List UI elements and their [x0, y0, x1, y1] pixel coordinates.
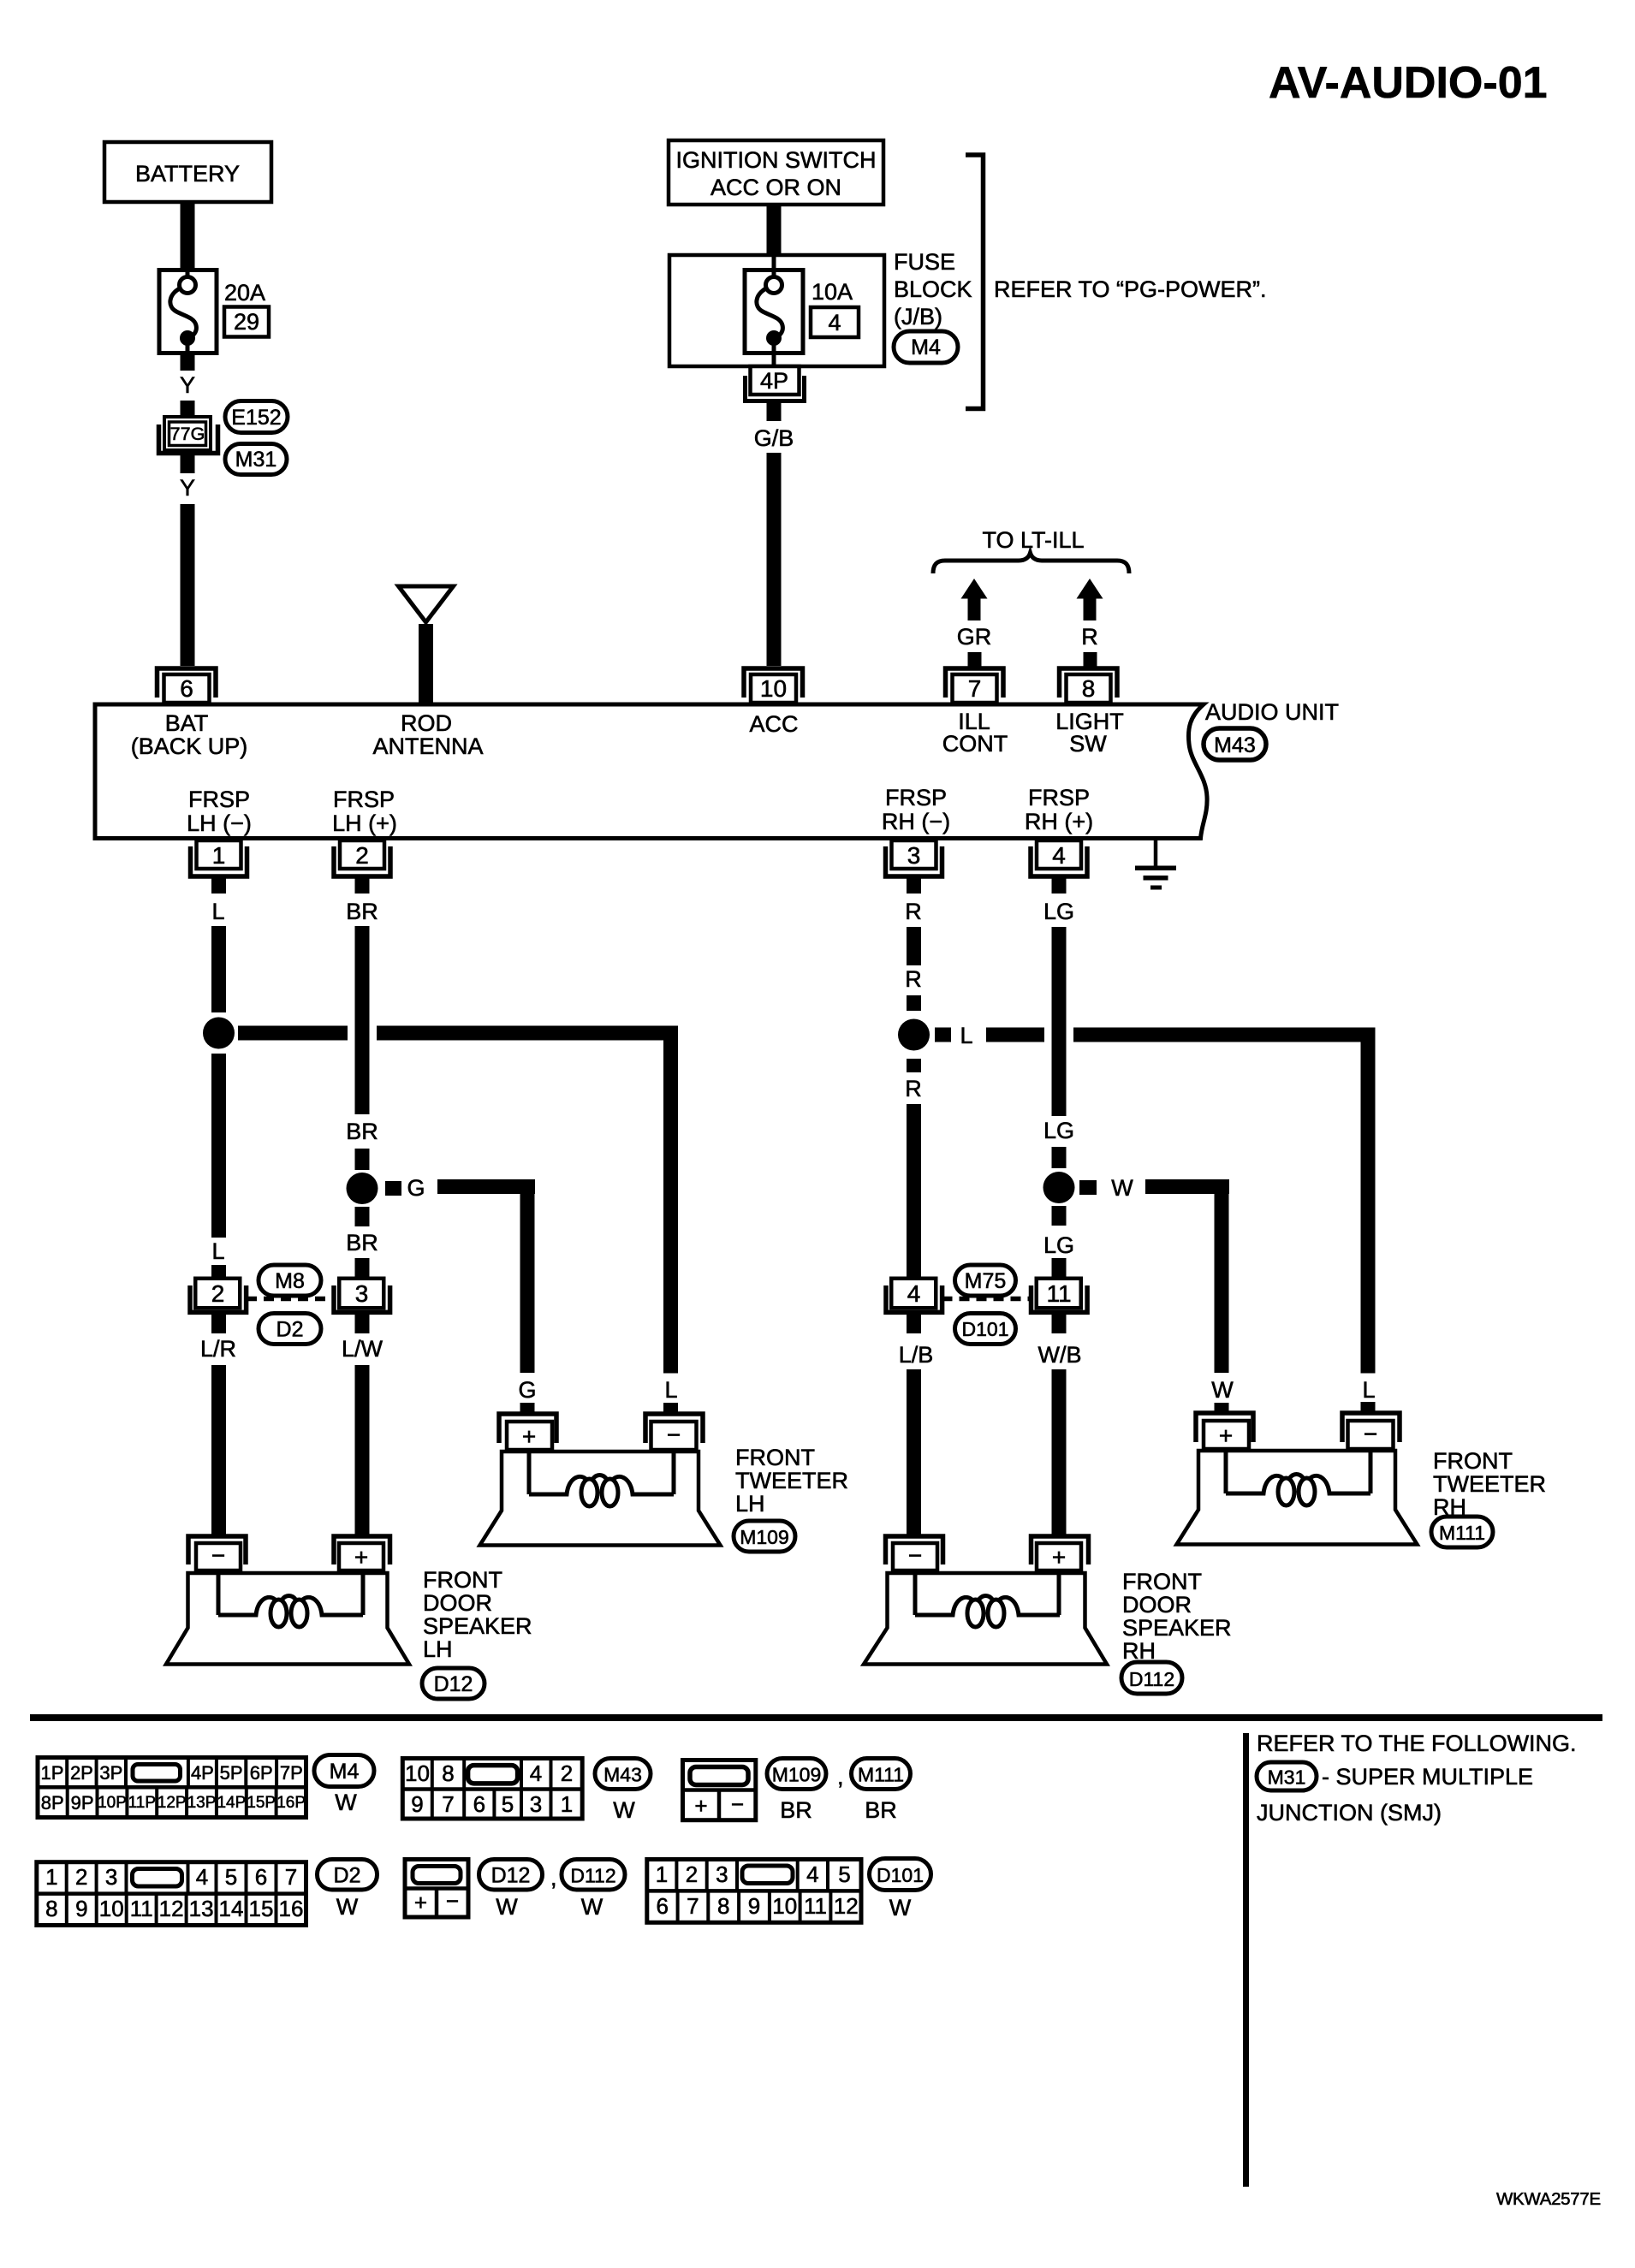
connector oval M109 — [734, 1521, 795, 1552]
svg-text:1: 1 — [45, 1864, 57, 1890]
svg-text:G: G — [518, 1377, 536, 1403]
svg-text:M111: M111 — [1439, 1522, 1485, 1544]
svg-text:REFER TO THE FOLLOWING.: REFER TO THE FOLLOWING. — [1257, 1731, 1577, 1756]
connector oval M4 (legend) — [314, 1755, 374, 1787]
wire L stub to terminal — [1361, 1402, 1376, 1412]
svg-text:FRSP: FRSP — [1028, 785, 1090, 810]
connector oval D12 (legend) — [479, 1860, 543, 1891]
door speaker RH body — [864, 1573, 1107, 1665]
svg-text:FRONT: FRONT — [423, 1567, 502, 1593]
svg-text:BLOCK: BLOCK — [894, 276, 972, 302]
svg-text:M31: M31 — [1268, 1766, 1306, 1789]
door speaker LH coil — [218, 1573, 363, 1615]
svg-text:SPEAKER: SPEAKER — [1122, 1615, 1232, 1641]
branch dash L — [935, 1028, 951, 1042]
svg-text:LG: LG — [1043, 1232, 1074, 1258]
svg-text:9: 9 — [748, 1893, 760, 1919]
svg-text:IGNITION SWITCH: IGNITION SWITCH — [676, 147, 877, 173]
svg-text:9: 9 — [411, 1791, 423, 1817]
wire L lower — [211, 1054, 226, 1238]
svg-text:4: 4 — [530, 1760, 542, 1786]
svg-text:5P: 5P — [220, 1762, 243, 1784]
svg-text:L/W: L/W — [342, 1336, 383, 1362]
wire G stub to terminal — [520, 1403, 535, 1413]
connector grid D101 — [647, 1860, 861, 1923]
svg-text:6: 6 — [180, 675, 193, 702]
svg-text:M43: M43 — [1214, 733, 1256, 757]
svg-text:L: L — [1362, 1377, 1375, 1403]
svg-text:10A: 10A — [812, 279, 853, 305]
svg-text:10: 10 — [772, 1893, 797, 1919]
svg-text:BAT: BAT — [165, 710, 209, 736]
connector oval D112 (legend) — [562, 1860, 625, 1891]
svg-text:G: G — [407, 1175, 425, 1201]
branch wire L to tweeter LH minus — [238, 1026, 348, 1041]
svg-text:5: 5 — [838, 1861, 850, 1887]
svg-text:9P: 9P — [71, 1792, 94, 1814]
wire Y to pin 6 — [181, 504, 195, 666]
bracket for fuse block note — [966, 155, 984, 409]
svg-text:20A: 20A — [224, 280, 265, 306]
rod antenna symbol — [399, 586, 454, 622]
svg-text:12P: 12P — [158, 1794, 187, 1812]
svg-text:SW: SW — [1069, 731, 1107, 757]
svg-text:15: 15 — [249, 1896, 274, 1921]
connector oval M111 (legend) — [852, 1759, 911, 1790]
connector 11 (M75/D101) — [1032, 1285, 1088, 1312]
wire L/B to speaker — [907, 1369, 921, 1535]
svg-text:10: 10 — [99, 1896, 124, 1921]
svg-text:1P: 1P — [41, 1762, 64, 1784]
svg-text:LH (+): LH (+) — [332, 810, 397, 836]
connector drawing M109/M111 — [683, 1760, 756, 1820]
wire BR upper — [355, 926, 370, 1114]
svg-text:DOOR: DOOR — [1122, 1592, 1192, 1618]
svg-text:M109: M109 — [740, 1526, 789, 1548]
arrow GR to LT-ILL — [961, 579, 988, 599]
dash link 4-11 — [942, 1297, 1031, 1302]
pin 8 connector — [1060, 668, 1118, 698]
svg-text:L/B: L/B — [899, 1342, 934, 1368]
svg-text:RH (−): RH (−) — [882, 809, 950, 834]
wire GR to pin 7 — [968, 652, 982, 668]
wire LG block — [1052, 1147, 1067, 1168]
svg-text:W: W — [581, 1894, 603, 1920]
connector oval D101 — [955, 1314, 1016, 1345]
svg-text:7: 7 — [442, 1791, 454, 1817]
svg-text:G/B: G/B — [754, 425, 794, 451]
svg-text:11: 11 — [130, 1896, 153, 1921]
svg-text:FRONT: FRONT — [1122, 1569, 1202, 1594]
door speaker LH plus terminal — [334, 1536, 390, 1564]
connector oval M4 — [894, 331, 958, 363]
svg-text:29: 29 — [234, 309, 259, 335]
pin 6 connector — [158, 668, 217, 698]
svg-text:8: 8 — [45, 1896, 57, 1921]
connector oval D2 (legend) — [318, 1860, 378, 1891]
svg-text:D2: D2 — [276, 1318, 304, 1342]
svg-text:+: + — [694, 1793, 707, 1819]
wire pin4 stub — [1052, 878, 1067, 894]
svg-text:D112: D112 — [1129, 1668, 1174, 1690]
svg-text:2P: 2P — [70, 1762, 93, 1784]
svg-text:4: 4 — [196, 1864, 208, 1890]
wire LG to connector 11 — [1052, 1258, 1067, 1278]
svg-text:3: 3 — [105, 1864, 117, 1890]
pin 2 connector — [340, 840, 384, 869]
svg-text:3: 3 — [716, 1861, 728, 1887]
connector grid D2 — [37, 1862, 306, 1926]
svg-text:M8: M8 — [275, 1269, 305, 1293]
connector oval D101 (legend) — [870, 1859, 931, 1891]
svg-text:- SUPER MULTIPLE: - SUPER MULTIPLE — [1322, 1764, 1533, 1790]
right column divider — [1243, 1733, 1249, 2187]
svg-text:AV-AUDIO-01: AV-AUDIO-01 — [1269, 58, 1548, 108]
junction BR — [347, 1173, 378, 1204]
svg-text:JUNCTION (SMJ): JUNCTION (SMJ) — [1257, 1800, 1442, 1826]
branch wire G to tweeter LH plus — [437, 1179, 535, 1194]
arrow R to LT-ILL — [1077, 579, 1103, 599]
svg-text:M109: M109 — [772, 1764, 822, 1786]
svg-text:+: + — [1219, 1422, 1233, 1449]
tweeter RH minus terminal — [1342, 1413, 1400, 1442]
audio unit box M43 — [95, 704, 1207, 839]
svg-text:LG: LG — [1043, 899, 1074, 924]
svg-text:9: 9 — [75, 1896, 87, 1921]
connector oval M109 (legend) — [767, 1759, 826, 1790]
svg-text:8: 8 — [717, 1893, 729, 1919]
wire BR to connector 3 — [355, 1258, 370, 1278]
tweeter RH coil — [1226, 1451, 1370, 1493]
svg-text:2: 2 — [686, 1861, 698, 1887]
connector oval M75 — [955, 1265, 1016, 1296]
svg-text:16: 16 — [279, 1896, 304, 1921]
svg-text:FRSP: FRSP — [188, 787, 250, 812]
svg-text:4: 4 — [806, 1861, 818, 1887]
svg-text:+: + — [414, 1890, 427, 1915]
connector oval D12 — [422, 1668, 485, 1699]
svg-text:6P: 6P — [250, 1762, 273, 1784]
svg-text:M31: M31 — [235, 448, 277, 472]
svg-text:ACC OR ON: ACC OR ON — [710, 175, 841, 200]
wire W stub to terminal — [1215, 1403, 1229, 1412]
svg-text:11: 11 — [804, 1893, 827, 1919]
pin 10 connector — [744, 668, 803, 698]
wire battery to fuse — [181, 202, 195, 270]
svg-text:D101: D101 — [877, 1864, 924, 1886]
wire below connector 3 — [355, 1315, 370, 1333]
svg-text:BR: BR — [346, 899, 378, 924]
door speaker RH minus terminal — [886, 1536, 943, 1564]
svg-text:6: 6 — [255, 1864, 267, 1890]
svg-text:LG: LG — [1043, 1118, 1074, 1143]
junction L — [203, 1018, 235, 1049]
svg-text:LH: LH — [423, 1636, 453, 1662]
svg-text:W: W — [1211, 1377, 1234, 1403]
svg-text:FRSP: FRSP — [885, 785, 947, 810]
wire G/B to pin 10 — [767, 453, 782, 666]
svg-text:7: 7 — [968, 675, 982, 702]
fuse number box 4 — [811, 307, 859, 337]
branch dash G — [385, 1181, 401, 1196]
svg-text:,: , — [837, 1764, 844, 1790]
pin 4 connector — [1037, 840, 1081, 869]
separator line — [30, 1714, 1602, 1721]
svg-text:FRONT: FRONT — [1433, 1448, 1513, 1474]
door speaker RH plus terminal — [1032, 1536, 1089, 1564]
svg-text:4: 4 — [1052, 842, 1066, 869]
wire R block — [907, 995, 921, 1011]
svg-text:FRONT: FRONT — [735, 1445, 815, 1470]
wire pin2 stub — [355, 878, 370, 894]
svg-text:5: 5 — [225, 1864, 237, 1890]
connector grid M4 — [38, 1758, 306, 1818]
svg-text:REFER TO “PG-POWER”.: REFER TO “PG-POWER”. — [994, 276, 1267, 302]
connector 4P — [751, 366, 800, 395]
wire below connector 2 — [211, 1315, 226, 1333]
connector 4 (M75/D101) — [886, 1285, 942, 1312]
svg-text:10: 10 — [760, 675, 787, 702]
battery box — [104, 142, 271, 202]
svg-text:GR: GR — [957, 624, 992, 650]
svg-text:W: W — [1111, 1175, 1133, 1201]
fuse F29 element — [170, 270, 197, 353]
svg-text:L: L — [211, 899, 224, 924]
wire ignition to fuse block — [767, 205, 782, 255]
svg-text:BATTERY: BATTERY — [135, 161, 240, 187]
tweeter RH body — [1177, 1451, 1418, 1545]
wire pin3 stub — [907, 878, 921, 894]
svg-text:ANTENNA: ANTENNA — [372, 733, 483, 759]
svg-text:BR: BR — [865, 1797, 897, 1823]
connector 3 (M8/D2) — [334, 1285, 390, 1312]
pin 7 connector — [946, 668, 1004, 698]
wire below connector 11 — [1052, 1315, 1067, 1333]
svg-text:BR: BR — [780, 1797, 812, 1823]
svg-text:M111: M111 — [858, 1764, 904, 1786]
svg-text:AUDIO UNIT: AUDIO UNIT — [1205, 699, 1339, 725]
svg-text:+: + — [1052, 1544, 1066, 1570]
fuse F4 box — [745, 270, 803, 353]
svg-text:R: R — [905, 1076, 922, 1101]
svg-text:LH (−): LH (−) — [187, 810, 252, 836]
svg-text:W: W — [496, 1894, 518, 1920]
wire below 4P — [767, 403, 782, 421]
wire LG block below junction — [1052, 1206, 1067, 1226]
tweeter RH plus terminal — [1196, 1413, 1253, 1442]
svg-text:3: 3 — [907, 842, 921, 869]
svg-text:2: 2 — [355, 842, 369, 869]
fuse F29 box — [159, 270, 217, 353]
svg-text:8: 8 — [442, 1760, 454, 1786]
svg-text:+: + — [354, 1544, 368, 1570]
connector oval M31 (note) — [1257, 1762, 1317, 1790]
svg-text:R: R — [905, 899, 922, 924]
wire LG upper — [1052, 927, 1067, 1116]
svg-text:2: 2 — [561, 1760, 573, 1786]
wire L upper — [211, 926, 226, 1012]
connector oval M8 — [259, 1265, 321, 1296]
svg-text:ROD: ROD — [401, 710, 452, 736]
fuse block J/B box — [669, 255, 884, 366]
wire R to pin 8 — [1084, 652, 1097, 668]
svg-text:(J/B): (J/B) — [894, 304, 942, 330]
svg-text:15P: 15P — [247, 1794, 276, 1812]
wire R block below junction — [907, 1059, 921, 1072]
wire L/R to speaker — [211, 1365, 226, 1535]
connector oval M111 — [1431, 1517, 1493, 1547]
svg-text:D112: D112 — [570, 1865, 615, 1887]
svg-text:BR: BR — [346, 1119, 378, 1144]
svg-text:7: 7 — [687, 1893, 699, 1919]
svg-text:8: 8 — [1082, 675, 1096, 702]
pin 3 connector — [892, 840, 936, 869]
wire L to connector 2 — [211, 1265, 226, 1278]
svg-text:1: 1 — [212, 842, 226, 869]
wire W/B to speaker — [1052, 1369, 1067, 1535]
svg-text:1: 1 — [561, 1791, 573, 1817]
svg-text:W: W — [889, 1895, 912, 1921]
door speaker LH minus terminal — [188, 1536, 246, 1564]
connector oval E152 — [225, 401, 288, 433]
wire above 77G — [181, 401, 195, 418]
svg-text:−: − — [446, 1888, 459, 1914]
connector oval M43 — [1204, 728, 1266, 760]
wire R to connector 4 — [907, 1104, 921, 1278]
svg-text:FUSE: FUSE — [894, 249, 955, 275]
junction LG — [1043, 1172, 1075, 1203]
pin 1 connector — [197, 840, 241, 869]
svg-text:WKWA2577E: WKWA2577E — [1496, 2189, 1601, 2209]
svg-text:M4: M4 — [911, 335, 941, 359]
svg-text:10P: 10P — [98, 1794, 127, 1812]
svg-text:Y: Y — [180, 372, 195, 398]
svg-text:13: 13 — [189, 1896, 214, 1921]
svg-text:W: W — [336, 1894, 359, 1920]
svg-text:M43: M43 — [603, 1764, 642, 1786]
connector 77G (SMJ) — [164, 417, 211, 450]
wire BR block — [355, 1149, 370, 1170]
svg-text:BR: BR — [346, 1230, 378, 1256]
svg-text:13P: 13P — [187, 1794, 217, 1812]
connector 2 (M8/D2) — [190, 1285, 247, 1312]
svg-text:TWEETER: TWEETER — [1433, 1471, 1546, 1497]
svg-text:−: − — [1364, 1421, 1377, 1447]
svg-text:L: L — [960, 1023, 972, 1048]
svg-text:D2: D2 — [334, 1864, 361, 1888]
svg-text:3: 3 — [530, 1791, 542, 1817]
wire L/W to speaker — [355, 1365, 370, 1535]
svg-text:14: 14 — [219, 1896, 244, 1921]
svg-text:7P: 7P — [280, 1762, 303, 1784]
door speaker LH body — [166, 1573, 409, 1665]
svg-text:D12: D12 — [434, 1672, 473, 1696]
wire below connector 4 — [907, 1315, 921, 1333]
connector drawing D12/D112 — [405, 1860, 468, 1918]
svg-text:16P: 16P — [276, 1794, 306, 1812]
connector oval D112 — [1121, 1662, 1182, 1694]
svg-text:W/B: W/B — [1038, 1342, 1082, 1368]
svg-text:4: 4 — [828, 310, 841, 335]
svg-text:(BACK UP): (BACK UP) — [131, 733, 248, 759]
svg-text:ACC: ACC — [749, 711, 798, 737]
svg-text:4P: 4P — [760, 368, 788, 394]
svg-text:−: − — [731, 1791, 744, 1817]
svg-text:+: + — [522, 1423, 536, 1450]
svg-text:11: 11 — [1046, 1280, 1071, 1307]
tweeter LH coil — [529, 1452, 674, 1494]
tweeter LH plus terminal — [499, 1414, 556, 1443]
svg-text:TWEETER: TWEETER — [735, 1468, 848, 1493]
svg-text:1: 1 — [656, 1861, 668, 1887]
svg-text:E152: E152 — [231, 406, 281, 430]
svg-text:4: 4 — [907, 1280, 921, 1307]
svg-text:10: 10 — [405, 1760, 430, 1786]
ground symbol — [1154, 840, 1158, 867]
connector oval M31 — [225, 444, 287, 475]
svg-text:CONT: CONT — [942, 731, 1008, 757]
svg-text:11P: 11P — [128, 1794, 156, 1812]
wire R segment — [907, 927, 921, 965]
svg-text:L/R: L/R — [200, 1336, 236, 1362]
svg-text:D12: D12 — [491, 1864, 531, 1888]
curly brace — [933, 553, 1129, 573]
svg-text:−: − — [211, 1542, 225, 1569]
svg-text:R: R — [905, 966, 922, 992]
wire below 77G — [181, 455, 195, 473]
tweeter LH body — [480, 1452, 721, 1546]
wire below fuse — [181, 354, 195, 371]
svg-text:L: L — [211, 1238, 224, 1264]
svg-text:12: 12 — [159, 1896, 184, 1921]
svg-text:6: 6 — [473, 1791, 485, 1817]
svg-text:,: , — [550, 1865, 557, 1891]
svg-text:SPEAKER: SPEAKER — [423, 1613, 532, 1639]
branch wire L to tweeter RH minus — [986, 1028, 1044, 1042]
svg-text:14P: 14P — [217, 1794, 246, 1812]
svg-text:W: W — [613, 1797, 635, 1823]
svg-text:3: 3 — [355, 1280, 369, 1307]
svg-text:M75: M75 — [965, 1269, 1007, 1293]
svg-text:DOOR: DOOR — [423, 1590, 492, 1616]
branch dash W — [1079, 1180, 1097, 1195]
door speaker RH coil — [915, 1573, 1059, 1615]
dash link 2-3 — [247, 1297, 333, 1302]
svg-text:D101: D101 — [962, 1318, 1009, 1340]
svg-text:−: − — [667, 1422, 681, 1448]
svg-text:TO LT-ILL: TO LT-ILL — [982, 527, 1084, 553]
fuse F4 element — [757, 255, 783, 366]
svg-text:FRSP: FRSP — [333, 787, 395, 812]
branch wire W to tweeter RH plus — [1145, 1179, 1229, 1194]
svg-text:6: 6 — [656, 1893, 668, 1919]
svg-text:RH (+): RH (+) — [1025, 809, 1093, 834]
connector oval M43 (legend) — [595, 1759, 651, 1790]
svg-text:2: 2 — [75, 1864, 87, 1890]
wire pin1 stub — [211, 878, 226, 894]
svg-text:2: 2 — [211, 1280, 225, 1307]
connector oval D2 — [259, 1314, 321, 1345]
svg-text:77G: 77G — [170, 424, 205, 444]
svg-text:−: − — [908, 1542, 922, 1569]
svg-text:L: L — [664, 1377, 677, 1403]
fuse number box 29 — [224, 307, 269, 337]
tweeter LH minus terminal — [645, 1414, 703, 1443]
junction R — [898, 1019, 930, 1051]
svg-text:LH: LH — [735, 1491, 765, 1517]
connector grid M43 — [402, 1759, 582, 1820]
svg-text:12: 12 — [834, 1893, 859, 1919]
